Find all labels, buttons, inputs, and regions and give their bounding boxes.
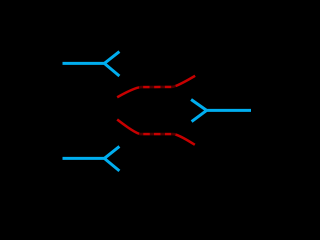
wire: top-left blue fork horizontal lead — [63, 62, 105, 65]
wire: bottom-left blue fork V branches — [104, 146, 119, 171]
wire: top red dashed curve — [117, 76, 195, 98]
wire: top-left blue fork V branches — [104, 52, 119, 76]
wire: top red dashed curve underlay — [117, 76, 195, 98]
wire: right blue fork horizontal tail — [206, 109, 251, 112]
wire: bottom-left blue fork horizontal lead — [63, 157, 105, 160]
wire: right blue fork V branches — [191, 100, 207, 122]
wire: bottom red dashed curve — [117, 120, 195, 145]
wire: bottom red dashed curve underlay — [117, 120, 195, 145]
